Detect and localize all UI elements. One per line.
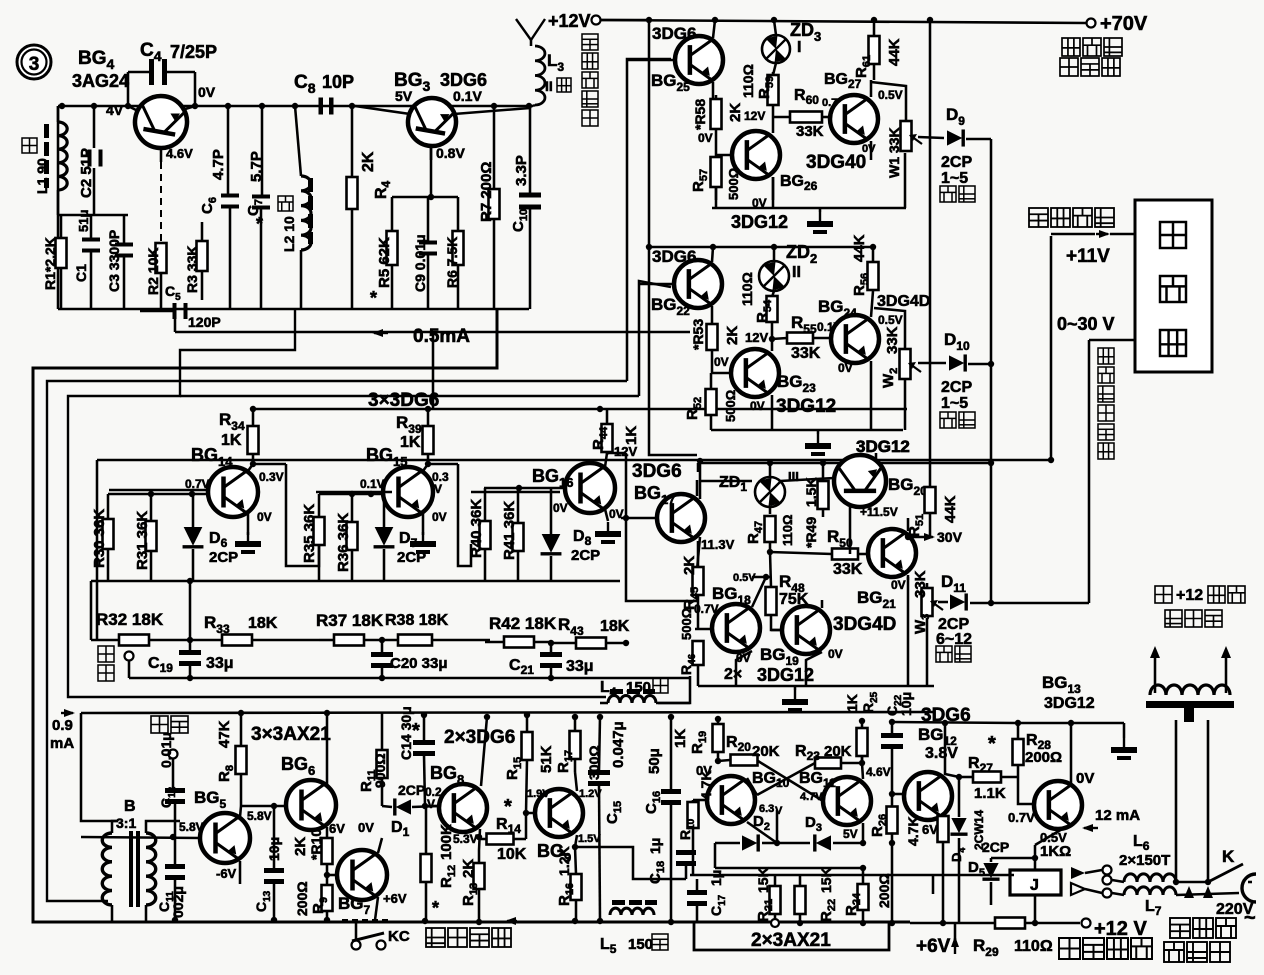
capacitor C21 [540,640,562,681]
wire rail mixer top [97,459,1051,462]
resistor R28 [1013,720,1024,765]
label BG18 [712,572,756,607]
inductor L2 [295,106,313,309]
wire [874,308,905,332]
svg-text:V: V [427,797,435,811]
ground [595,522,621,544]
transistor BG11 [823,763,871,846]
svg-text:150: 150 [626,679,651,696]
wire 12V bus [649,20,697,455]
transistor BG14 [108,464,258,535]
resistor R25 [857,718,868,763]
svg-text:20K: 20K [752,743,780,760]
label 12V [744,109,765,123]
svg-text:0V: 0V [698,131,713,145]
svg-text:3DG6: 3DG6 [440,70,487,90]
wire [712,153,906,208]
capacitor C22 [881,719,903,797]
svg-text:33μ: 33μ [206,655,234,672]
wire [58,214,128,217]
svg-text:12V: 12V [745,330,768,345]
label R61 44K [853,38,903,78]
svg-text:R31 36K: R31 36K [134,511,151,570]
inductor L4 [608,689,690,703]
transistor BG20 [834,455,886,554]
cjk 监听 [151,716,188,789]
resistor R30 [103,494,114,581]
svg-text:110Ω: 110Ω [739,272,755,306]
svg-text:1K: 1K [844,694,860,712]
svg-text:L2 10: L2 10 [281,216,297,252]
label R22 15K [818,867,838,922]
label R55 33K [791,313,821,362]
svg-text:*R49: *R49 [803,517,819,548]
resistor R45 [693,541,704,629]
svg-text:W1 33K: W1 33K [886,127,902,178]
svg-text:33μ: 33μ [566,658,594,675]
resistor R46 [693,641,704,665]
label 3DG12 [731,212,788,232]
wire staircase S3 [47,59,671,901]
label C17 1u [708,870,728,916]
svg-text:33K: 33K [791,345,821,362]
label 2x3DG6 [444,727,515,748]
wire [875,453,878,460]
svg-text:3DG6: 3DG6 [652,247,696,266]
capacitor C6 [221,106,239,309]
svg-text:*: * [412,720,420,742]
capacitor C14 [413,712,435,806]
label 0.2V [425,785,442,811]
label R14 10K [496,796,527,863]
label 0.1V [453,88,482,104]
resistor R4 [347,106,358,309]
resistor R8 [236,710,247,806]
transistor BG16 [484,453,615,521]
capacitor C15 [588,714,610,924]
label R32 18K [96,610,164,629]
diode D5 [982,858,999,905]
label 12V [745,330,768,345]
label C20 33u [390,655,448,672]
diode D10 [918,354,991,371]
svg-text:500Ω: 500Ω [679,608,694,640]
label 3DG12 [856,437,910,456]
wire 05mA drop [432,332,435,410]
resistor R10b [688,800,699,875]
transistor BG22 [639,247,722,325]
diode D3 [777,834,863,851]
svg-text:50μ: 50μ [646,748,663,774]
label 0.3V [432,470,449,496]
transistor BG17 [621,458,705,570]
svg-text:III: III [788,469,799,484]
label 2x3AX21 [694,923,889,951]
label R31 36K [134,511,151,570]
label BG27 [824,71,862,91]
label R47 [745,515,795,546]
svg-text:0.7V: 0.7V [694,602,719,616]
svg-text:3DG12: 3DG12 [757,665,814,685]
svg-text:15K: 15K [755,867,771,893]
svg-text:30V: 30V [937,529,963,545]
wire staircase S2 [33,309,910,922]
svg-text:2×: 2× [724,666,742,683]
svg-text:10P: 10P [322,72,354,92]
cjk 电视机电源 [582,34,598,126]
svg-text:R41 36K: R41 36K [501,501,518,560]
label 0.3V [259,470,284,484]
wire [600,19,649,22]
wire [392,146,458,200]
svg-text:500Ω: 500Ω [726,168,741,200]
capacitor C13 [264,803,284,923]
wire [600,676,690,703]
label D4 2CW14 [949,810,986,862]
svg-text:0.7V: 0.7V [1008,810,1035,825]
transistor BG12 [892,772,959,820]
transistor BG7 [327,838,387,920]
label L7 [1145,898,1162,918]
svg-text:B: B [124,798,136,815]
diode D1 [382,798,439,815]
diode D4 [950,777,967,923]
svg-text:0.5V: 0.5V [878,88,903,102]
transistor BG24 [831,291,879,430]
diode D11 [938,593,991,610]
resistor R57 [711,155,722,200]
svg-text:R32 18K: R32 18K [96,610,164,629]
label C9 0.01u [412,234,428,292]
wire rail [250,406,907,412]
svg-text:+12: +12 [1176,587,1203,604]
svg-text:3DG12: 3DG12 [776,396,836,417]
label C5 120P [165,283,221,330]
cjk 接电视机电源 [1164,886,1236,962]
label 220V [1216,901,1256,929]
svg-text:1KΩ: 1KΩ [1040,843,1071,860]
label R16 1.2K [556,846,576,906]
label R8 47K [216,720,236,782]
label D7 2CP [397,530,426,566]
ground [805,430,831,456]
label ZD1 [719,469,799,494]
label 3DG6 [632,461,682,482]
inductor L1 [44,106,67,215]
switch KC [342,920,410,950]
svg-text:200Ω: 200Ω [876,873,892,908]
label BG26 [780,173,818,193]
svg-text:0V: 0V [750,399,765,413]
potentiometer W2 [900,332,922,430]
svg-text:44K: 44K [942,495,959,523]
wire 09mA box [81,712,935,821]
svg-text:0.01μ: 0.01μ [158,732,174,768]
label 1K [1040,843,1071,860]
label D8 2CP [571,528,600,564]
label R40 36K [468,499,485,558]
label R38 18K [385,612,449,629]
svg-text:2K: 2K [360,151,377,172]
svg-text:2×3DG6: 2×3DG6 [444,727,515,748]
svg-text:2CP: 2CP [571,547,600,564]
svg-text:33K: 33K [912,570,929,598]
resistor R36 [347,494,358,581]
label 3DG12 [776,396,836,417]
wire rail top [646,17,877,38]
label 0V [838,361,853,375]
label R37 18K [316,611,384,630]
svg-text:2×150T: 2×150T [1119,852,1170,869]
label R34 1K [219,410,245,449]
wire rail disc bottom [698,577,934,686]
capacitor C1 [82,215,100,309]
resistor R41 [513,488,524,581]
resistor R54 [767,296,778,339]
capacitor C19 [179,640,201,681]
label R7 200 [478,162,495,222]
relay J [1010,870,1061,926]
label 6V [922,822,938,837]
label R9 200 [294,881,330,916]
wire [871,82,906,104]
svg-text:2CP: 2CP [941,379,972,396]
wire [954,922,957,945]
svg-text:-6V: -6V [216,866,237,881]
label 0V [891,578,906,592]
label 4.6V [866,765,891,779]
svg-text:*: * [504,796,512,818]
label star [412,720,420,742]
svg-text:0.5V: 0.5V [878,313,903,327]
label R56 44K [851,234,871,296]
svg-text:7/25P: 7/25P [170,42,217,62]
label 3DG4D [833,614,896,635]
svg-text:1.9V: 1.9V [527,788,550,800]
label C18 1u [647,838,667,884]
label 0V [1076,770,1094,787]
svg-text:+6V: +6V [916,936,951,957]
label R6 7.5K [444,237,460,288]
svg-text:4V: 4V [106,102,124,118]
transistor BG10 [693,776,777,843]
svg-text:0V: 0V [432,510,447,524]
label 0V [736,651,751,665]
label 3DG6 [652,24,696,43]
label 3DG12 [856,437,910,456]
svg-text:3DG12: 3DG12 [1044,695,1095,712]
wire [715,246,873,249]
wire +70V rail [1087,19,1096,28]
label D9 [946,105,965,128]
resistor R11 [377,713,388,806]
label +6V [916,936,959,957]
wire [58,308,529,311]
svg-text:0V: 0V [1076,770,1094,787]
label BG10 [752,770,790,790]
label 0V [432,510,447,524]
svg-text:*R10: *R10 [308,829,324,860]
svg-text:L1 90: L1 90 [34,158,50,194]
label R59 110 [740,64,776,99]
svg-text:+12 V: +12 V [1094,918,1147,940]
label R11 900 [358,753,388,792]
svg-text:C9 0.01μ: C9 0.01μ [412,234,428,292]
label C10 3.3P [510,155,530,232]
svg-text:33K: 33K [884,326,901,354]
label R21 15K [755,867,775,922]
svg-text:10μ: 10μ [266,837,282,861]
label BG17 [634,483,675,507]
svg-text:12V: 12V [614,444,637,459]
svg-text:15K: 15K [818,867,834,893]
label 3DG6 [921,705,971,726]
label R27 1.1K [968,733,1006,802]
label 5.3V [453,832,478,846]
label 0V [358,820,374,835]
ground [410,532,436,554]
transistor BG8 [425,714,490,850]
label R20 20K [726,734,780,760]
svg-text:*R53: *R53 [690,319,706,350]
svg-text:2×3AX21: 2×3AX21 [751,930,831,951]
label C11 002u [156,886,186,918]
svg-text:0V: 0V [358,820,374,835]
label C13 10u [253,837,282,912]
antenna [516,19,545,46]
label 5.8V [179,820,204,834]
resistor R39 [423,409,472,566]
label ZD2 II [786,242,817,281]
label R45 2K [681,556,701,610]
label +12V [548,11,601,31]
svg-text:4.6V: 4.6V [166,146,193,161]
label 0V [257,510,272,524]
svg-text:R3 33K: R3 33K [184,246,200,293]
svg-text:44K: 44K [886,38,903,66]
resistor R33 [190,635,319,646]
label 3.8V [925,745,958,762]
label BG20 [888,475,927,498]
svg-text:12 mA: 12 mA [1095,807,1140,824]
label 1.6V [527,788,550,800]
transistor BG9 [535,772,686,879]
label 0.8V [436,145,465,161]
label R54 110 [739,272,774,323]
svg-text:R7 200Ω: R7 200Ω [478,162,495,222]
label R35 36K [301,504,318,563]
wire 1K node [991,845,1038,870]
capacitor C3 [115,215,133,309]
resistor R24 [858,865,869,926]
cjk 切换电压 [1029,208,1114,227]
label C12 0.01u [158,732,178,808]
connector arrows [1071,866,1112,898]
label R50 33K [827,527,863,578]
label BG16 [532,466,573,490]
wire [711,429,903,432]
svg-text:5.7P: 5.7P [248,151,265,182]
resistor R58 [711,95,722,155]
diode D7 [374,494,395,581]
capacitor C2 [88,106,103,215]
label D2 [753,813,770,833]
label R12 100K [432,824,458,918]
svg-text:3DG6: 3DG6 [652,24,696,43]
svg-text:0V: 0V [736,651,751,665]
svg-text:1~5: 1~5 [941,170,968,187]
resistor R22 [795,875,806,926]
plug [1242,874,1256,902]
resistor R14 [479,813,536,845]
label 0.1V [817,320,842,334]
label R36 36K [335,513,352,572]
label R49 1.5K [803,477,819,548]
svg-text:2CP: 2CP [398,782,425,798]
svg-text:0V: 0V [828,647,843,661]
svg-text:R1*2.2K: R1*2.2K [42,237,58,290]
svg-text:6V: 6V [922,822,938,837]
ground [782,686,808,712]
label 0.5V [878,313,903,327]
svg-text:47K: 47K [216,720,233,748]
resistor R21 [770,875,781,927]
svg-text:2K: 2K [727,103,744,122]
svg-text:V: V [434,482,442,496]
inductor L3 [533,46,545,106]
label R30 36K [91,509,108,568]
svg-text:*R58: *R58 [692,99,708,130]
capacitor C20 [371,637,393,681]
svg-text:R2 10K: R2 10K [145,248,161,295]
svg-text:1~5: 1~5 [941,395,968,412]
label R44 1K [590,426,640,450]
label R48 75K [779,572,809,608]
svg-text:4.7V: 4.7V [800,791,823,803]
label BG25 [651,71,690,94]
zener ZD1 [755,463,785,514]
circled 3 marker [17,45,51,79]
label L5 150 [600,934,668,956]
svg-text:0.047μ: 0.047μ [610,721,627,768]
resistor R49 [818,463,829,517]
wire [696,480,699,496]
svg-text:4.6V: 4.6V [866,765,891,779]
svg-text:3×3AX21: 3×3AX21 [251,724,331,745]
zener ZD2 [759,247,789,297]
svg-text:3DG12: 3DG12 [856,437,910,456]
label 3DG4D [877,293,930,310]
label R23 20K [795,743,852,763]
label BG13 3DG12 [1042,673,1095,712]
svg-text:3: 3 [29,54,40,75]
label 3x3AX21 [251,724,331,745]
svg-text:R6 7.5K: R6 7.5K [444,237,460,288]
svg-text:150: 150 [628,936,653,953]
resistor R19 [713,716,724,764]
transistor BG4 [128,92,195,243]
wire bottom rails [690,875,1014,894]
svg-text:200Ω: 200Ω [1025,749,1062,766]
hf tuner box [1135,200,1212,372]
svg-text:5V: 5V [843,827,858,841]
svg-text:110Ω: 110Ω [740,64,756,98]
svg-text:0.1V: 0.1V [453,88,482,104]
ground [807,208,833,234]
wire switch volt [1051,230,1135,238]
label +6V [383,891,407,906]
wire mixer left box [96,460,99,640]
